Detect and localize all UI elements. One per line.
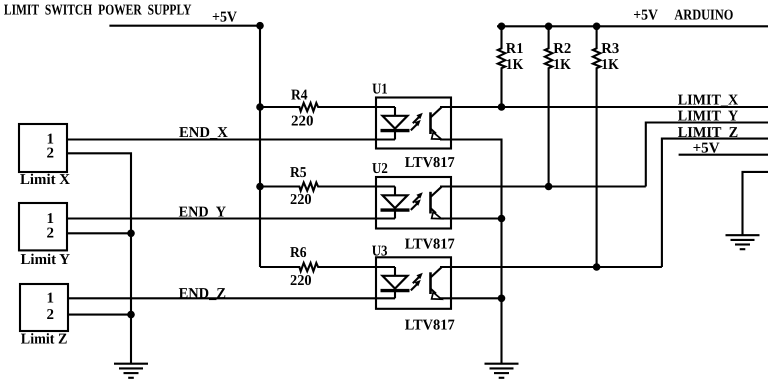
junction dot R4 left xyxy=(256,103,264,111)
svg-text:R1: R1 xyxy=(506,41,524,57)
junction dot R2 bottom on U2 collector row xyxy=(545,183,553,191)
svg-text:ARDUINO: ARDUINO xyxy=(674,7,733,23)
U1 light arrow 1 xyxy=(413,117,419,123)
svg-text:+5V: +5V xyxy=(633,8,658,24)
junction dot U3 emitter / ground bus xyxy=(498,295,506,303)
svg-text:2: 2 xyxy=(47,226,55,242)
svg-text:Limit Y: Limit Y xyxy=(21,252,71,268)
resistor R2 1K vertical xyxy=(545,26,552,186)
U2 light arrow 1 xyxy=(413,197,419,203)
svg-text:END_Y: END_Y xyxy=(179,205,227,221)
svg-text:220: 220 xyxy=(290,273,312,289)
svg-text:LIMIT_Z: LIMIT_Z xyxy=(678,125,739,141)
svg-text:Limit X: Limit X xyxy=(20,172,70,188)
svg-text:LTV817: LTV817 xyxy=(405,236,455,252)
junction dot R1 top xyxy=(498,23,506,31)
svg-text:END_X: END_X xyxy=(179,125,228,141)
U2 light arrow 2 xyxy=(411,204,417,210)
U2 collector lead xyxy=(431,187,442,197)
U1 phototransistor base bar xyxy=(429,112,432,134)
svg-text:2: 2 xyxy=(47,307,55,323)
svg-text:LTV817: LTV817 xyxy=(405,155,455,171)
U2 LED anode lead xyxy=(394,187,396,196)
U3 phototransistor base bar xyxy=(429,272,432,294)
U2 LED cathode bar xyxy=(381,208,410,211)
wire Limit Z pin 2 to ground bus xyxy=(68,314,131,316)
wire LIMIT_Z net riser and horizontal xyxy=(662,139,768,267)
connector J2 Limit Y box xyxy=(19,203,67,250)
junction dot U2 emitter / ground bus xyxy=(498,215,506,223)
svg-text:1K: 1K xyxy=(553,57,571,73)
wire U3 collector row xyxy=(440,266,662,268)
junction dot R3 bottom on U3 collector row xyxy=(593,263,601,271)
junction dot R5 left xyxy=(256,183,264,191)
wire +5V left rail horizontal xyxy=(109,25,260,27)
U1 emitter lead with arrowhead xyxy=(431,129,437,134)
svg-text:+5V: +5V xyxy=(693,140,720,156)
U1 LED anode lead xyxy=(394,107,396,116)
svg-text:LIMIT_Y: LIMIT_Y xyxy=(678,109,739,125)
wire END_Y net (Limit Y pin 1 to U2 cathode) xyxy=(67,217,395,219)
wire END_X net (Limit X pin 1 to U1 cathode) xyxy=(67,138,395,140)
connector J3 Limit Z box xyxy=(20,284,68,331)
U2 LED cathode lead xyxy=(394,210,396,218)
svg-text:1K: 1K xyxy=(601,57,619,73)
wire LIMIT_Y net riser and horizontal xyxy=(646,123,768,187)
wire LIMIT_X net (U1 collector to right edge) xyxy=(440,106,768,108)
U2 emitter lead with arrowhead xyxy=(431,208,437,213)
svg-text:R6: R6 xyxy=(290,245,307,261)
ground symbol (left, connector common) xyxy=(114,364,148,378)
svg-text:U2: U2 xyxy=(372,161,388,177)
optocoupler U3 LTV817 xyxy=(372,244,455,334)
wire +5V arduino rail horizontal xyxy=(497,25,768,27)
U1 LED cathode lead xyxy=(394,131,396,140)
U1 light arrow 2 xyxy=(411,124,417,130)
optocoupler U2 LTV817 xyxy=(372,161,455,253)
U3 LED anode lead xyxy=(394,267,396,276)
U1 LED triangle xyxy=(383,116,408,129)
wire U2 emitter to ground bus xyxy=(440,217,502,219)
wire U1 emitter to ground bus xyxy=(440,140,502,364)
U3 box xyxy=(376,257,451,309)
wire U3 emitter to ground bus xyxy=(440,297,502,299)
resistor R6 220 horizontal with feed wire xyxy=(260,263,395,271)
svg-text:1: 1 xyxy=(47,290,55,306)
svg-text:+5V: +5V xyxy=(212,9,237,25)
svg-text:Limit Z: Limit Z xyxy=(21,331,68,347)
resistor R3 1K vertical xyxy=(593,26,600,267)
svg-text:U1: U1 xyxy=(372,81,388,97)
U2 phototransistor base bar xyxy=(429,192,432,214)
junction dot Limit Z pin2 / ground bus xyxy=(127,311,135,319)
junction dot R3 top xyxy=(593,23,601,31)
svg-text:LIMIT SWITCH POWER SUPPLY: LIMIT SWITCH POWER SUPPLY xyxy=(4,3,192,19)
U3 LED triangle xyxy=(383,276,408,289)
resistor R1 1K vertical xyxy=(498,26,505,107)
junction dot left rail corner xyxy=(256,22,264,30)
U1 LED cathode bar xyxy=(381,129,410,132)
svg-text:R3: R3 xyxy=(601,41,619,57)
U1 box xyxy=(376,98,451,149)
junction dot R2 top xyxy=(545,23,553,31)
U3 collector lead xyxy=(431,267,442,277)
svg-text:END_Z: END_Z xyxy=(179,286,226,302)
svg-text:U3: U3 xyxy=(372,244,388,260)
svg-text:220: 220 xyxy=(291,114,314,130)
wire +5V output to right edge xyxy=(679,154,768,156)
U2 LED triangle xyxy=(383,195,408,208)
U3 LED cathode lead xyxy=(394,291,396,299)
U1 collector lead xyxy=(431,107,442,117)
ground symbol (middle, opto emitters) xyxy=(485,364,519,378)
svg-text:R4: R4 xyxy=(291,87,308,103)
wire END_Z net (Limit Z pin 1 to U3 cathode) xyxy=(68,297,395,299)
svg-text:R5: R5 xyxy=(290,165,307,181)
connector J1 Limit X box xyxy=(19,124,67,172)
wire U2 collector row xyxy=(440,185,646,187)
junction dot R1 bottom on LIMIT_X xyxy=(498,103,506,111)
svg-text:LIMIT_X: LIMIT_X xyxy=(678,93,739,109)
U3 emitter lead with arrowhead xyxy=(431,289,437,294)
optocoupler U1 LTV817 xyxy=(372,81,455,171)
wire +5V feed vertical x=260 xyxy=(259,26,261,267)
wire Limit X pin 2 to ground bus xyxy=(67,153,131,363)
U3 light arrow 2 xyxy=(411,284,417,290)
ground symbol (right, arduino) xyxy=(726,235,760,249)
U3 light arrow 1 xyxy=(413,277,419,283)
svg-text:2: 2 xyxy=(47,146,55,162)
svg-text:1: 1 xyxy=(47,211,55,227)
svg-text:1K: 1K xyxy=(506,57,524,73)
svg-text:220: 220 xyxy=(290,192,312,208)
resistor R4 220 horizontal with feed wire xyxy=(260,103,395,111)
svg-text:R2: R2 xyxy=(553,41,571,57)
U3 LED cathode bar xyxy=(381,289,410,292)
svg-text:LTV817: LTV817 xyxy=(405,317,455,333)
wire ground stub from right edge xyxy=(743,172,768,235)
resistor R5 220 horizontal with feed wire xyxy=(260,183,395,191)
junction dot Limit Y pin2 / ground bus xyxy=(127,230,135,238)
U2 box xyxy=(376,177,451,229)
wire Limit Y pin 2 to ground bus xyxy=(67,232,131,234)
